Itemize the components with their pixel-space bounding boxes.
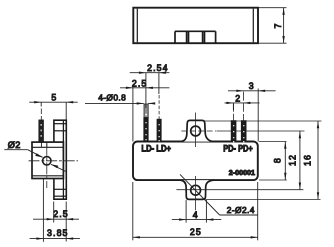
svg-text:PD- PD+: PD- PD+ (223, 144, 253, 154)
svg-text:16: 16 (302, 154, 312, 166)
svg-text:4-Ø0.8: 4-Ø0.8 (98, 93, 126, 103)
front view bottom tab hole (191, 185, 201, 195)
front view top mounting tab (181, 120, 214, 141)
dimension 2.5 side text (53, 209, 69, 219)
label Ø2 leader (4, 150, 66, 172)
label 4-Ø0.8 text (98, 93, 126, 103)
pin 3 centerline (233, 104, 235, 121)
dimension 7 line and arrows (282, 8, 284, 44)
svg-text:2.5: 2.5 (53, 209, 69, 219)
dimension 2.5 front text (132, 78, 148, 88)
pin 4 centerline (243, 92, 245, 121)
label PD- PD+ (223, 144, 253, 154)
front view top tab hole (191, 126, 201, 136)
side view pin (39, 120, 44, 142)
svg-text:4: 4 (193, 210, 199, 220)
front view bottom hole centerline horizontal / dim 12 extension bottom (176, 189, 303, 191)
side view flange inner vertical line (62, 120, 64, 199)
pin 1 lower segment (144, 118, 148, 142)
side view hole circle (43, 157, 51, 165)
side view pin centerline (40, 109, 42, 120)
side view flange step lines bottom (54, 189, 66, 196)
dimension 3.85 (30, 179, 80, 242)
top view outline (133, 8, 258, 44)
svg-text:5: 5 (51, 93, 57, 103)
dimension 16 text (302, 154, 312, 166)
dimension 8 text (273, 157, 283, 163)
pin 1 upper segment (144, 104, 148, 118)
dimension 7 text (273, 23, 283, 29)
side view hole centerline horizontal (29, 160, 79, 162)
dimension 25 text (190, 227, 202, 237)
label LD- LD+ (141, 144, 171, 154)
dimension 12 line (299, 131, 301, 190)
svg-text:2-00001: 2-00001 (229, 168, 255, 177)
dimension 2.5 front (120, 86, 169, 141)
label 2-Ø2.4 leader (180, 174, 258, 215)
svg-text:2.5: 2.5 (132, 78, 148, 88)
pin 3 (231, 121, 236, 143)
top view connector bumps (175, 31, 216, 42)
front view body (133, 142, 258, 181)
dimension 8 line (284, 142, 286, 181)
label part number 2-00001 (229, 168, 255, 177)
svg-text:25: 25 (190, 227, 202, 237)
dimension 3 top right (228, 89, 276, 142)
side view flange step lines top (54, 124, 66, 131)
side view body top ticks (41, 142, 46, 147)
dimension 16 line (317, 121, 319, 199)
pin 2 (157, 119, 161, 142)
dimension 3.85 text (47, 228, 69, 238)
svg-text:7: 7 (273, 23, 283, 29)
dimension 2.54 text (147, 63, 169, 73)
svg-text:LD- LD+: LD- LD+ (141, 144, 171, 154)
side view hole centerline vertical (46, 144, 48, 188)
label 2-Ø2.4 text (227, 205, 255, 215)
side view flange plate (54, 120, 66, 199)
dimension 25 (133, 182, 258, 240)
svg-text:2: 2 (235, 93, 241, 103)
front view top tab centerline vertical (195, 113, 197, 148)
dimension 5 text (51, 93, 57, 103)
svg-text:Ø2: Ø2 (8, 140, 21, 150)
front view top hole centerline horizontal / dim 12 extension top (181, 130, 304, 132)
dimension 4 text (193, 210, 199, 220)
svg-text:2.54: 2.54 (147, 63, 169, 73)
dimension 3 text (249, 81, 255, 91)
dimension 5 (29, 101, 77, 120)
svg-text:3.85: 3.85 (47, 228, 69, 238)
dimension 8 12 16 extension lines (203, 121, 321, 199)
side view body inner lines (32, 147, 63, 176)
label Ø2 text (8, 140, 21, 150)
dimension 2.54 (130, 72, 170, 109)
dimension 7 extension lines (259, 8, 287, 44)
svg-text:2-Ø2.4: 2-Ø2.4 (227, 205, 255, 215)
dimension 12 text (288, 154, 298, 166)
dimension 2.5 side (33, 202, 79, 242)
svg-text:12: 12 (288, 154, 298, 166)
label 4-Ø0.8 leader (85, 102, 155, 104)
front view bottom tab centerline vertical (195, 176, 197, 210)
dimension 4 bottom (172, 200, 222, 223)
top view left inner edge line (136, 9, 138, 43)
dimension 2 text (235, 93, 241, 103)
side view body block (32, 142, 63, 178)
svg-text:3: 3 (249, 81, 255, 91)
pin 2 centerline (158, 95, 160, 119)
front view bottom mounting tab (180, 180, 213, 199)
dimension 2 top right (225, 102, 260, 110)
pin 4 (241, 121, 246, 143)
svg-text:8: 8 (273, 157, 283, 163)
top view right inner edge line (252, 9, 254, 43)
